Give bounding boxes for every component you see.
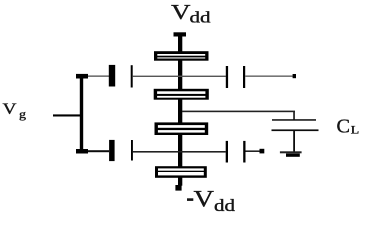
label Vg [3,101,27,121]
node gate bus bottom junction [76,149,88,154]
capacitor CL top plate [272,119,316,121]
node gate bus top junction [76,74,88,79]
svg-text:V: V [194,187,215,212]
capacitor top-right gate plate 2 [243,66,245,88]
wire output node horizontal [182,111,295,113]
ground lower bar [286,154,300,157]
svg-text:C: C [337,116,351,138]
label Vdd [171,0,211,27]
wire bottom-right gate lead [246,150,260,152]
wire top junction to gate plate [88,75,109,77]
wire bottom gate row (crosses spine) [133,151,226,153]
ground upper bar [280,151,302,153]
svg-text:dd: dd [214,196,236,215]
wire top-right gate lead [245,76,293,77]
capacitor bottom-left gate thin plate [131,140,133,161]
capacitor top-right gate plate 1 [226,66,228,88]
svg-text:dd: dd [190,10,211,27]
label CL [337,116,360,138]
capacitor bottom-right gate plate 1 [226,141,228,163]
capacitor bottom-right gate plate 2 [243,141,245,163]
transistor M2 (second box) [154,89,209,100]
wire Vdd spine (central vertical drain/source stack line) [178,36,182,186]
wire top gate row (crosses spine) [133,76,226,77]
svg-text:V: V [171,0,191,24]
node top-right terminal dot [293,74,296,78]
wire bottom junction to gate plate [88,150,109,152]
transistor M1 (top box) [154,51,209,61]
label -Vdd [187,187,236,216]
wire CL to ground [293,131,295,152]
node -Vdd terminal cap [175,185,181,191]
svg-text:L: L [351,123,360,137]
transistor M3 (third box) [155,122,209,135]
node Vdd terminal cap [174,32,187,36]
wire output node drop to CL [293,111,295,120]
wire Vg input [53,114,81,116]
wire gate bus vertical [80,76,83,152]
capacitor CL bottom plate [272,129,319,131]
capacitor top-left gate thin plate [131,65,133,87]
node bottom-right terminal dot [260,149,265,154]
capacitor bottom-left gate thick plate [109,140,115,161]
svg-text:g: g [19,107,26,121]
capacitor top-left gate thick plate [109,65,115,87]
transistor M4 (bottom box) [155,166,207,178]
svg-text:V: V [3,101,18,118]
